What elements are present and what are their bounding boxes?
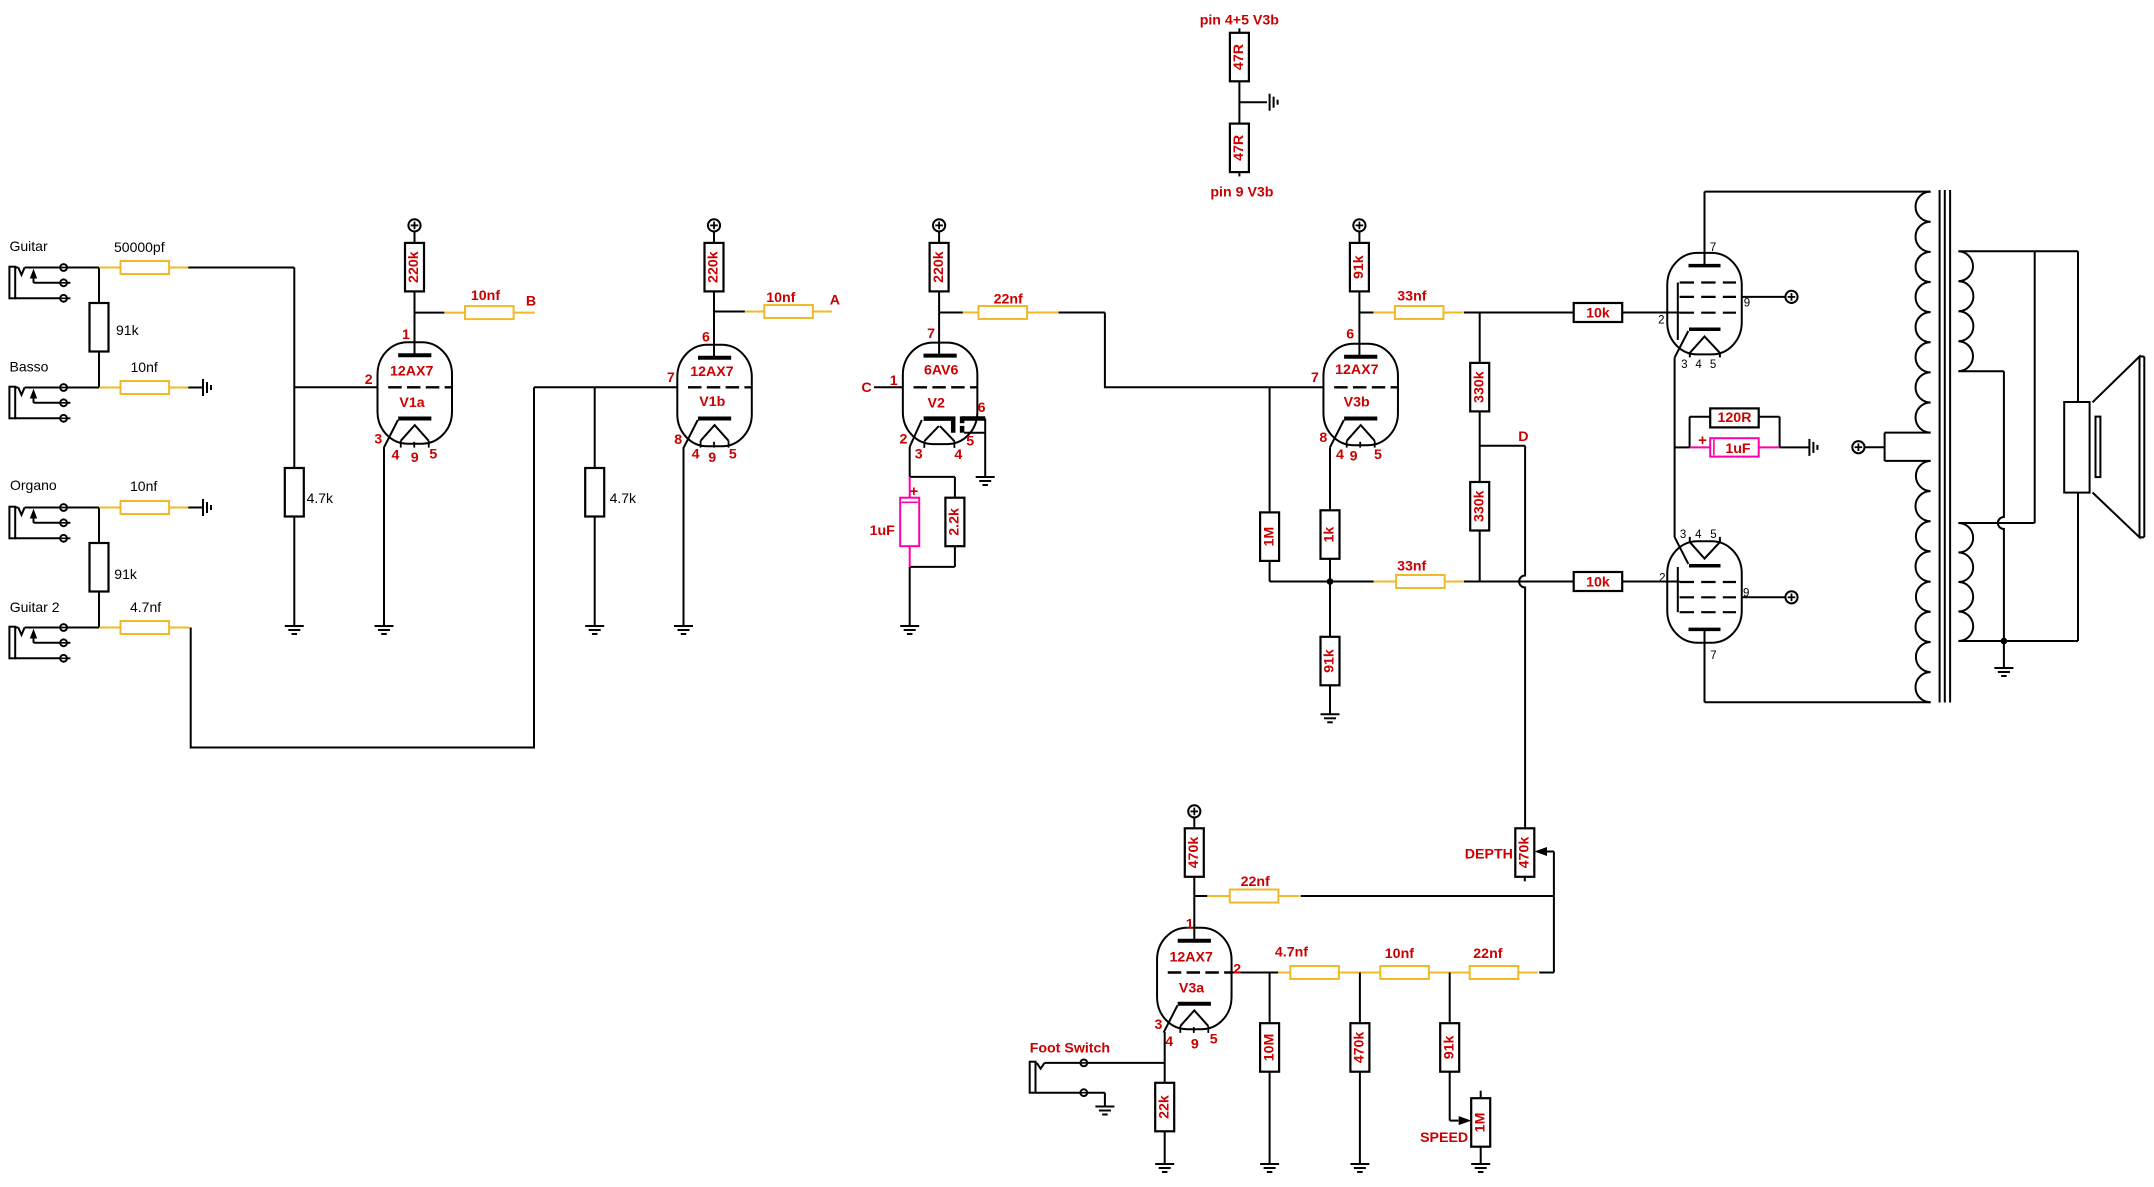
svg-text:47R: 47R [1231,44,1247,70]
svg-text:5: 5 [729,446,737,462]
svg-text:A: A [830,293,840,309]
svg-text:3: 3 [1155,1017,1163,1033]
svg-text:10M: 10M [1261,1034,1277,1062]
svg-text:1: 1 [1186,917,1194,933]
svg-text:91k: 91k [1351,255,1367,279]
svg-text:3: 3 [374,431,382,447]
svg-text:2: 2 [365,372,373,388]
svg-text:10k: 10k [1586,306,1610,322]
svg-text:2: 2 [1233,961,1241,977]
svg-text:9: 9 [1743,588,1749,600]
svg-text:10nf: 10nf [131,359,158,375]
svg-text:V1b: V1b [699,394,725,410]
svg-text:2.2k: 2.2k [947,508,963,536]
svg-text:91k: 91k [114,566,138,582]
svg-text:4.7nf: 4.7nf [130,599,161,615]
svg-text:9: 9 [708,450,716,466]
svg-text:470k: 470k [1186,837,1202,869]
svg-text:9: 9 [1350,449,1358,465]
svg-text:3: 3 [1680,529,1686,541]
svg-text:Foot Switch: Foot Switch [1030,1041,1110,1057]
svg-text:9: 9 [411,450,419,466]
svg-text:7: 7 [1311,370,1319,386]
svg-text:1uF: 1uF [870,523,896,539]
svg-text:33nf: 33nf [1397,559,1426,575]
svg-text:B: B [526,293,536,309]
svg-text:5: 5 [1374,447,1382,463]
svg-text:2: 2 [900,431,908,447]
svg-text:DEPTH: DEPTH [1465,846,1513,862]
svg-text:5: 5 [429,447,437,463]
svg-text:4: 4 [1695,359,1702,371]
svg-text:3: 3 [1681,359,1687,371]
svg-text:12AX7: 12AX7 [390,364,433,380]
svg-text:4.7k: 4.7k [307,490,334,506]
svg-text:4: 4 [692,447,700,463]
svg-text:7: 7 [1710,650,1716,662]
svg-text:8: 8 [1319,430,1327,446]
svg-text:+: + [910,483,919,500]
svg-text:6: 6 [702,329,710,345]
svg-text:Guitar 2: Guitar 2 [10,599,60,615]
svg-text:22nf: 22nf [994,292,1023,308]
svg-text:22k: 22k [1156,1095,1172,1119]
svg-text:4: 4 [1695,529,1702,541]
svg-text:4.7k: 4.7k [610,490,637,506]
svg-text:470k: 470k [1352,1032,1368,1064]
svg-text:1: 1 [402,327,410,343]
svg-text:7: 7 [1710,242,1716,254]
svg-text:D: D [1518,429,1528,445]
svg-text:1uF: 1uF [1725,441,1751,457]
svg-text:4: 4 [392,448,400,464]
svg-text:1M: 1M [1472,1113,1488,1133]
svg-text:V3a: V3a [1179,980,1204,996]
svg-text:12AX7: 12AX7 [690,364,733,380]
svg-text:4.7nf: 4.7nf [1275,945,1308,961]
svg-text:330k: 330k [1471,371,1487,403]
svg-text:7: 7 [927,326,935,342]
svg-text:5: 5 [1710,529,1716,541]
svg-text:50000pf: 50000pf [114,239,165,255]
svg-text:Basso: Basso [10,358,49,374]
svg-text:5: 5 [966,434,974,450]
svg-text:22nf: 22nf [1241,874,1270,890]
svg-text:6: 6 [1346,327,1354,343]
svg-text:1: 1 [890,373,898,389]
svg-text:5: 5 [1710,359,1716,371]
svg-text:C: C [861,380,871,396]
svg-text:6: 6 [978,400,986,416]
svg-text:12AX7: 12AX7 [1335,362,1378,378]
svg-text:9: 9 [1744,297,1750,309]
svg-text:10nf: 10nf [766,290,795,306]
svg-text:10nf: 10nf [471,288,500,304]
svg-text:4: 4 [1336,447,1344,463]
svg-text:V2: V2 [928,396,945,412]
svg-text:7: 7 [667,370,675,386]
svg-text:12AX7: 12AX7 [1170,949,1213,965]
svg-text:330k: 330k [1471,490,1487,522]
svg-text:2: 2 [1658,315,1664,327]
svg-text:91k: 91k [116,322,140,338]
svg-text:4: 4 [1165,1034,1173,1050]
svg-text:3: 3 [915,447,923,463]
svg-text:5: 5 [1210,1032,1218,1048]
svg-text:10nf: 10nf [1385,946,1414,962]
svg-text:pin 4+5 V3b: pin 4+5 V3b [1200,12,1280,28]
svg-text:6AV6: 6AV6 [924,363,959,379]
svg-text:10k: 10k [1586,575,1610,591]
svg-text:+: + [1698,432,1707,449]
svg-text:8: 8 [674,432,682,448]
svg-text:Organo: Organo [10,477,57,493]
svg-text:22nf: 22nf [1473,946,1502,962]
svg-text:120R: 120R [1718,410,1752,426]
svg-text:pin 9 V3b: pin 9 V3b [1210,185,1273,201]
svg-text:10nf: 10nf [130,478,157,494]
svg-text:Guitar: Guitar [10,238,48,254]
svg-text:91k: 91k [1322,649,1338,673]
svg-text:33nf: 33nf [1397,289,1426,305]
svg-text:220k: 220k [931,251,947,283]
svg-text:V1a: V1a [399,395,424,411]
svg-text:220k: 220k [706,251,722,283]
svg-text:47R: 47R [1231,135,1247,161]
svg-text:91k: 91k [1441,1036,1457,1060]
svg-text:2: 2 [1659,572,1665,584]
svg-text:4: 4 [954,447,962,463]
svg-text:SPEED: SPEED [1420,1130,1468,1146]
svg-text:9: 9 [1191,1037,1199,1053]
svg-text:V3b: V3b [1344,395,1370,411]
svg-text:220k: 220k [406,251,422,283]
svg-text:470k: 470k [1517,837,1533,869]
svg-text:1k: 1k [1322,527,1338,543]
svg-text:1M: 1M [1261,527,1277,547]
